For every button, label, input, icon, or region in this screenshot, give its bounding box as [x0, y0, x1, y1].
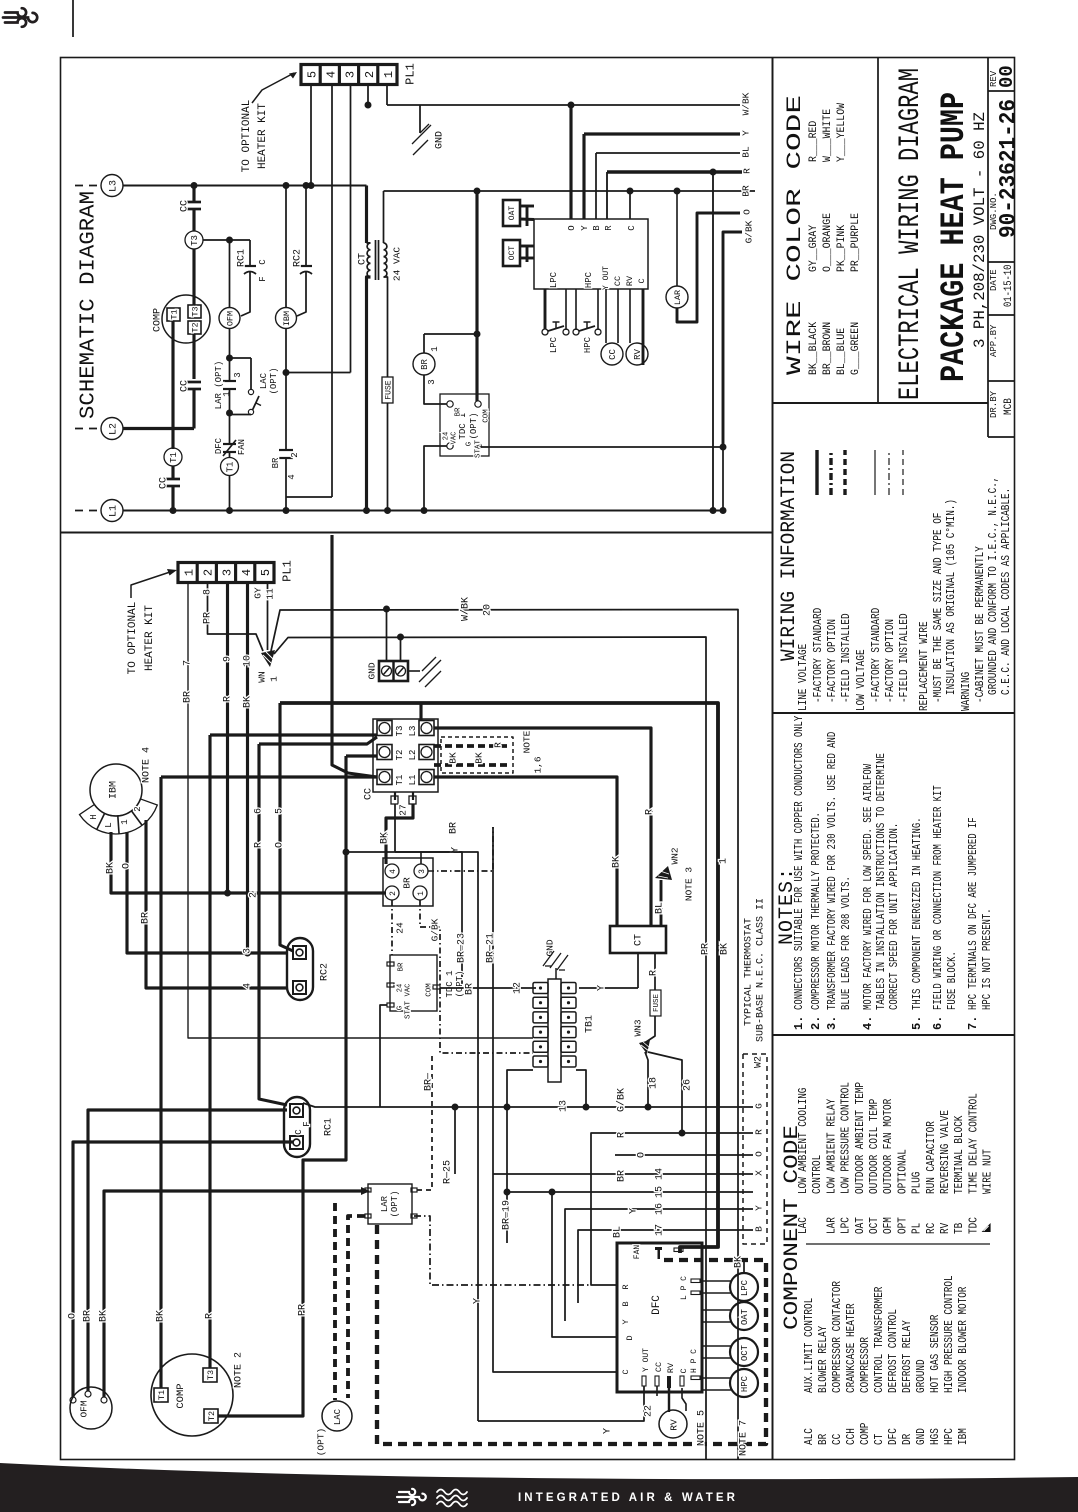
svg-text:WN3: WN3 [632, 1019, 643, 1036]
svg-text:R: R [205, 1313, 216, 1319]
svg-text:LAR: LAR [380, 1195, 390, 1212]
svg-text:DEFROST RELAY: DEFROST RELAY [901, 1320, 914, 1393]
dashed box low voltage field [377, 1225, 766, 1444]
svg-text:CONTROL: CONTROL [811, 1155, 824, 1194]
svg-text:MOTOR FACTORY WIRED FOR LOW SP: MOTOR FACTORY WIRED FOR LOW SPEED. SEE A… [862, 764, 875, 1010]
svg-text:NOTE: NOTE [521, 730, 532, 753]
svg-text:Y: Y [629, 1208, 640, 1214]
dash-dot R-25 [414, 1216, 591, 1285]
ground GND (schematic) [419, 105, 421, 133]
wire TDC G STAT [481, 445, 725, 447]
wire COMP T1 down [171, 321, 174, 449]
svg-text:PR__PURPLE: PR__PURPLE [850, 213, 862, 272]
svg-text:(OPT): (OPT) [315, 1428, 326, 1457]
defrost control DFC (schematic) [534, 219, 648, 289]
svg-text:BL: BL [613, 1226, 624, 1238]
svg-text:G/BK: G/BK [743, 220, 754, 243]
wire DFC C pin to 24VAC [629, 191, 631, 219]
svg-text:REPLACEMENT WIRE: REPLACEMENT WIRE [917, 621, 931, 711]
relay coil LAR (schematic) [674, 188, 681, 195]
wire thermostat X (14) [493, 1173, 753, 1175]
node T1 (OFM) [221, 458, 239, 476]
svg-text:-FIELD INSTALLED: -FIELD INSTALLED [897, 613, 911, 703]
contact DFC FAN [229, 413, 231, 444]
svg-text:BR: BR [398, 962, 406, 972]
svg-text:HGS: HGS [929, 1428, 942, 1445]
svg-text:HIGH PRESSURE CONTROL: HIGH PRESSURE CONTROL [943, 1275, 956, 1393]
svg-text:T1: T1 [157, 1390, 167, 1400]
svg-text:COM: COM [483, 409, 491, 423]
wire R-9 [226, 583, 229, 893]
svg-text:LOW PRESSURE CONTROL: LOW PRESSURE CONTROL [840, 1082, 853, 1194]
svg-text:O: O [567, 225, 577, 230]
svg-text:RC1: RC1 [237, 249, 248, 267]
wire x333 to T1 [332, 535, 377, 777]
svg-text:T1: T1 [226, 462, 236, 473]
svg-text:BR__BROWN: BR__BROWN [822, 322, 834, 375]
blower motor IBM (main) [90, 764, 142, 816]
svg-text:22: 22 [644, 1405, 655, 1417]
svg-text:TDC 1: TDC 1 [445, 970, 455, 997]
wire O-5 [280, 703, 293, 951]
svg-text:BR: BR [817, 1434, 830, 1445]
svg-text:OAT: OAT [740, 1308, 750, 1325]
wire O-5 to L3 [419, 703, 422, 721]
svg-text:H: H [89, 814, 99, 819]
svg-text:PR: PR [203, 612, 214, 624]
svg-text:11: 11 [264, 588, 275, 600]
svg-text:BR: BR [455, 407, 463, 417]
run capacitor RC2 (schematic) [303, 182, 310, 189]
svg-text:RC2: RC2 [293, 249, 304, 267]
svg-text:90-23621-26: 90-23621-26 [996, 99, 1022, 238]
svg-text:6: 6 [254, 808, 265, 814]
svg-text:DR: DR [901, 1434, 914, 1445]
svg-text:L P C: L P C [680, 1276, 689, 1300]
wire COMP T2 (PR) [218, 756, 346, 1416]
svg-text:RUN CAPACITOR: RUN CAPACITOR [925, 1121, 938, 1194]
connector plug OAT (schematic) [503, 200, 520, 226]
svg-text:BL: BL [655, 902, 666, 914]
node L3 [75, 185, 98, 187]
svg-text:OUTDOOR COIL TEMP: OUTDOOR COIL TEMP [868, 1099, 881, 1194]
svg-text:VAC: VAC [451, 432, 459, 445]
svg-text:G/BK: G/BK [616, 1088, 628, 1112]
svg-text:GND: GND [544, 939, 555, 956]
svg-text:(OPT): (OPT) [269, 367, 279, 394]
svg-text:CC: CC [180, 200, 191, 212]
svg-text:TABLES IN INSTALLATION INSTRUC: TABLES IN INSTALLATION INSTRUCTIONS TO D… [875, 753, 888, 1010]
svg-text:BR: BR [449, 822, 460, 834]
svg-text:W___WHITE: W___WHITE [822, 109, 834, 162]
svg-text:BR—21: BR—21 [486, 933, 497, 963]
wire COMP T1 (BK) [159, 777, 162, 1388]
defrost control DFC (main) [617, 1243, 702, 1392]
svg-text:FUSE: FUSE [384, 380, 393, 399]
svg-text:PL1: PL1 [403, 63, 417, 85]
svg-text:4: 4 [389, 869, 398, 874]
svg-text:-MUST BE THE SAME SIZE AND TYP: -MUST BE THE SAME SIZE AND TYPE OF [931, 513, 945, 703]
svg-text:TB1: TB1 [585, 1015, 596, 1033]
svg-text:24 VAC: 24 VAC [391, 247, 402, 282]
svg-text:1: 1 [222, 391, 232, 396]
wire LPC BK to dashed [743, 1260, 745, 1273]
svg-text:OFM: OFM [882, 1217, 895, 1234]
svg-text:CC: CC [608, 349, 618, 360]
svg-text:LOW AMBIENT COOLING: LOW AMBIENT COOLING [797, 1088, 810, 1194]
svg-text:F: F [302, 1121, 312, 1126]
wire OFM O [73, 1142, 293, 1397]
svg-text:4: 4 [240, 569, 254, 576]
svg-text:BK: BK [243, 696, 254, 708]
fan motor OFM (schematic) [219, 308, 240, 329]
svg-text:OFM: OFM [78, 1400, 89, 1417]
wire COMP T3 (R) [208, 735, 211, 1368]
svg-text:R: R [621, 1284, 631, 1289]
svg-text:GND: GND [435, 131, 446, 149]
wire W/BK-20 [271, 610, 738, 1460]
svg-text:WIRING INFORMATION: WIRING INFORMATION [778, 451, 801, 661]
svg-text:O: O [68, 1313, 79, 1319]
svg-text:W2: W2 [754, 1056, 765, 1068]
svg-text:5: 5 [305, 71, 319, 78]
run capacitor RC2 (main) [287, 938, 313, 1000]
svg-text:C: C [679, 1368, 689, 1373]
svg-text:18: 18 [649, 1077, 660, 1089]
svg-text:LAR: LAR [673, 290, 683, 305]
wire CC T2 stub [346, 754, 377, 757]
svg-text:LAC: LAC [333, 1408, 343, 1425]
svg-text:LAC: LAC [797, 1217, 810, 1234]
svg-text:-FACTORY STANDARD: -FACTORY STANDARD [811, 608, 825, 703]
svg-text:Y: Y [753, 1205, 764, 1211]
wire 24 / G-BK to TDC [391, 900, 393, 955]
svg-text:3: 3 [427, 379, 437, 384]
svg-text:B: B [753, 1226, 764, 1232]
svg-text:CT: CT [358, 253, 369, 265]
node T1 [164, 448, 182, 466]
svg-text:B: B [621, 1301, 631, 1306]
svg-text:HPC: HPC [583, 336, 593, 353]
svg-text:-FACTORY OPTION: -FACTORY OPTION [825, 619, 839, 703]
svg-text:01-15-10: 01-15-10 [1003, 265, 1015, 307]
wire OFM BR [88, 1110, 287, 1391]
dashed field power NOTE 1,6 [441, 737, 513, 773]
svg-text:COM: COM [426, 983, 434, 997]
svg-text:GROUNDED AND CONFORM TO I.E.C.: GROUNDED AND CONFORM TO I.E.C., N.E.C., [986, 477, 1000, 695]
fan motor OFM (main) [70, 1387, 112, 1429]
wire DFC R pin [606, 172, 608, 219]
svg-text:FAN: FAN [237, 439, 247, 455]
svg-text:T1: T1 [170, 309, 180, 319]
svg-text:C: C [637, 278, 647, 283]
svg-text:17: 17 [655, 1224, 666, 1236]
svg-text:DEFROST CONTROL: DEFROST CONTROL [887, 1309, 900, 1393]
wire PL1-5 to CC coil top / trunk [310, 85, 312, 186]
svg-text:T2: T2 [207, 1411, 217, 1421]
svg-text:BR: BR [83, 1310, 94, 1322]
svg-text:BK: BK [720, 943, 731, 955]
svg-text:BL__BLUE: BL__BLUE [836, 327, 848, 375]
svg-text:-FACTORY OPTION: -FACTORY OPTION [883, 619, 897, 703]
svg-text:2.: 2. [809, 1016, 823, 1030]
svg-text:L1: L1 [408, 775, 418, 786]
wire thermostat R [591, 1133, 753, 1285]
svg-text:COMPRESSOR: COMPRESSOR [859, 1337, 872, 1393]
relay BR block (main) [383, 858, 433, 906]
svg-text:2: 2 [133, 806, 143, 811]
wire L1 rail [123, 510, 723, 512]
svg-text:1: 1 [719, 858, 730, 864]
svg-text:CORRECT SPEED FOR UNIT APPLICA: CORRECT SPEED FOR UNIT APPLICATION. [888, 823, 901, 1010]
wire IBM L (BK) [111, 832, 386, 893]
svg-text:26: 26 [683, 1079, 694, 1091]
svg-text:4.: 4. [861, 1016, 875, 1030]
svg-text:LPC: LPC [840, 1217, 853, 1234]
wire CT secondary hot (24VAC) [384, 190, 756, 192]
svg-text:DFC: DFC [887, 1428, 900, 1445]
svg-text:TIME DELAY CONTROL: TIME DELAY CONTROL [967, 1093, 980, 1194]
blower motor IBM (schematic) [276, 308, 297, 329]
thermostat dashed box [743, 1054, 767, 1244]
svg-text:T1: T1 [395, 775, 405, 786]
svg-text:PR: PR [701, 943, 712, 955]
svg-text:G___GREEN: G___GREEN [850, 322, 862, 375]
svg-text:RV: RV [668, 1419, 679, 1431]
svg-text:Y OUT: Y OUT [602, 266, 611, 290]
svg-text:HPC: HPC [740, 1375, 750, 1392]
svg-text:COMPRESSOR MOTOR THERMALLY PRO: COMPRESSOR MOTOR THERMALLY PROTECTED. [810, 812, 823, 1010]
svg-text:2: 2 [202, 569, 216, 576]
switch LAC (OPT) [230, 357, 252, 359]
wire R-6 [259, 744, 287, 1105]
wire R COMP T3 to CC T3 [210, 733, 377, 736]
wire L2 rail [123, 427, 194, 430]
wire BR-23 [420, 852, 422, 864]
svg-text:G: G [397, 1005, 405, 1010]
svg-text:3.: 3. [825, 1016, 839, 1030]
svg-text:4: 4 [243, 983, 254, 989]
svg-text:TO OPTIONAL: TO OPTIONAL [241, 100, 253, 173]
svg-text:CT: CT [873, 1434, 886, 1445]
svg-text:B: B [592, 225, 602, 231]
svg-text:OCT: OCT [740, 1344, 750, 1361]
svg-text:R: R [223, 696, 234, 702]
svg-text:BK: BK [612, 856, 623, 868]
svg-text:CT: CT [634, 934, 645, 946]
svg-text:4: 4 [325, 71, 339, 78]
svg-text:8: 8 [203, 589, 214, 595]
svg-text:OPT: OPT [896, 1217, 909, 1234]
svg-text:IBM: IBM [109, 781, 120, 799]
wire OFM BK to LAR [104, 1191, 366, 1397]
svg-text:BK: BK [99, 1310, 110, 1322]
wire DFC O pin to W/BK [569, 105, 572, 219]
wire G/BK stub [477, 446, 723, 448]
svg-text:13: 13 [559, 1100, 570, 1112]
svg-text:TB: TB [953, 1223, 966, 1234]
transformer CT (main) [610, 926, 666, 953]
svg-text:1,6: 1,6 [532, 756, 543, 773]
svg-text:4: 4 [287, 474, 297, 479]
svg-text:Y: Y [580, 225, 590, 231]
wire L3 rail [123, 185, 367, 187]
wire WN1 to PR trunk [274, 637, 706, 1459]
svg-text:C.E.C. AND LOCAL CODES AS APPL: C.E.C. AND LOCAL CODES AS APPLICABLE. [999, 488, 1013, 695]
svg-text:5.: 5. [910, 1016, 924, 1030]
svg-text:L1: L1 [109, 505, 120, 517]
svg-text:WN2: WN2 [669, 847, 680, 864]
svg-text:-FIELD INSTALLED: -FIELD INSTALLED [839, 613, 853, 703]
pressure switch LPC (main) [730, 1273, 758, 1301]
svg-text:2: 2 [290, 452, 300, 457]
svg-text:TERMINAL BLOCK: TERMINAL BLOCK [953, 1116, 966, 1194]
svg-text:BK: BK [380, 832, 391, 844]
svg-text:DFC: DFC [214, 437, 224, 454]
svg-text:1: 1 [268, 676, 279, 682]
svg-text:W/BK: W/BK [740, 92, 751, 115]
svg-text:CC: CC [159, 477, 170, 489]
svg-text:L3: L3 [408, 726, 418, 737]
svg-text:ALC: ALC [803, 1428, 816, 1445]
svg-text:TO OPTIONAL: TO OPTIONAL [127, 602, 139, 675]
ground symbol (main) [408, 670, 420, 672]
wire TB1 to CT (Y) [579, 987, 638, 989]
svg-text:BR: BR [271, 457, 281, 468]
svg-text:COMP: COMP [175, 1383, 187, 1408]
svg-text:OAT: OAT [854, 1217, 867, 1234]
svg-text:GND: GND [366, 662, 377, 679]
wire PL1-2 [367, 85, 369, 105]
svg-text:Y___YELLOW: Y___YELLOW [836, 103, 848, 162]
svg-text:LAC: LAC [259, 372, 269, 389]
svg-text:O: O [122, 863, 133, 869]
svg-text:24: 24 [443, 432, 451, 440]
svg-text:GROUND: GROUND [915, 1359, 928, 1393]
svg-text:3: 3 [221, 569, 235, 576]
fuse FUSE (schematic) [384, 277, 388, 377]
svg-text:IBM: IBM [282, 311, 292, 326]
svg-text:TRANSFORMER FACTORY WIRED FOR: TRANSFORMER FACTORY WIRED FOR 230 VOLTS.… [826, 732, 839, 1010]
wire COMP T2 to CC contact [192, 334, 195, 379]
svg-text:BK: BK [447, 752, 458, 764]
svg-text:RC: RC [925, 1223, 938, 1234]
run capacitor RC1 (main) [284, 1097, 310, 1157]
svg-text:INSULATION AS ORIGINAL (105 C°: INSULATION AS ORIGINAL (105 C°MIN.) [944, 499, 958, 695]
svg-text:RV: RV [666, 1362, 676, 1373]
svg-text:1: 1 [382, 71, 396, 78]
svg-text:BR—: BR— [424, 1072, 435, 1091]
svg-text:1: 1 [182, 569, 196, 576]
svg-text:24: 24 [397, 984, 405, 992]
wire IBM 2 (BR) [146, 820, 286, 988]
svg-text:7.: 7. [966, 1016, 980, 1030]
wire LAR bottom to O stub [677, 213, 740, 322]
svg-text:BK: BK [473, 752, 484, 764]
terminal block TB1 [548, 979, 561, 1082]
contact CC (L2 phase) [187, 381, 201, 384]
svg-text:SUB-BASE N.E.C. CLASS II: SUB-BASE N.E.C. CLASS II [756, 898, 767, 1042]
wire DFC Y pin [582, 134, 585, 219]
svg-text:NOTE 5: NOTE 5 [697, 1410, 708, 1446]
svg-text:OUTDOOR FAN MOTOR: OUTDOOR FAN MOTOR [882, 1099, 895, 1194]
svg-text:H P C: H P C [690, 1349, 699, 1373]
svg-text:X: X [753, 1170, 764, 1176]
wire thermostat G (13/G-BK) [303, 1103, 753, 1107]
svg-text:R: R [617, 1132, 628, 1138]
svg-text:LOW AMBIENT RELAY: LOW AMBIENT RELAY [825, 1099, 838, 1194]
wire OFM down [229, 329, 231, 359]
svg-text:R: R [604, 225, 614, 231]
svg-text:G: G [753, 1103, 764, 1109]
svg-text:AUX.LIMIT CONTROL: AUX.LIMIT CONTROL [803, 1298, 816, 1393]
svg-text:3: 3 [233, 372, 243, 377]
svg-text:IBM: IBM [957, 1428, 970, 1445]
svg-text:12: 12 [513, 982, 524, 994]
svg-text:1: 1 [417, 891, 426, 896]
svg-text:R___RED: R___RED [808, 120, 820, 162]
svg-text:LPC: LPC [549, 271, 559, 288]
svg-text:WIRE NUT: WIRE NUT [982, 1149, 995, 1194]
svg-text:C: C [294, 1129, 304, 1135]
wire Y OUT 22 [478, 1386, 644, 1421]
svg-text:O: O [275, 842, 286, 848]
svg-text:5: 5 [275, 808, 286, 814]
svg-text:PACKAGE HEAT PUMP: PACKAGE HEAT PUMP [936, 92, 974, 382]
svg-text:Y OUT: Y OUT [642, 1348, 651, 1372]
wire CC L1 to CT (BK) [434, 777, 617, 926]
svg-text:LPC: LPC [740, 1279, 750, 1296]
svg-text:TDC: TDC [967, 1217, 980, 1234]
svg-text:3: 3 [344, 71, 358, 78]
svg-text:F: F [258, 276, 268, 281]
contact CC (L3 phase) [192, 186, 195, 203]
svg-text:L2: L2 [109, 423, 120, 435]
svg-text:DFC: DFC [651, 1295, 663, 1315]
svg-text:HPC: HPC [584, 271, 594, 288]
svg-text:COMPRESSOR CONTACTOR: COMPRESSOR CONTACTOR [831, 1281, 844, 1393]
wire thermostat Y (16) [565, 1209, 753, 1321]
svg-text:T3: T3 [190, 235, 200, 246]
wire CC L3 to CT (R) [434, 728, 651, 926]
svg-text:W/BK: W/BK [460, 597, 472, 621]
svg-text:OUTDOOR AMBIENT TEMP: OUTDOOR AMBIENT TEMP [854, 1082, 867, 1194]
svg-text:LAR (OPT): LAR (OPT) [214, 361, 224, 410]
reversing valve RV (main) [659, 1410, 687, 1438]
DFC bottom terminals [642, 1376, 646, 1386]
svg-text:FUSE: FUSE [653, 994, 661, 1013]
wire L3 to IBM [283, 182, 290, 189]
svg-text:6.: 6. [931, 1016, 945, 1030]
svg-text:10: 10 [243, 655, 254, 667]
svg-text:NOTE 7: NOTE 7 [739, 1420, 750, 1456]
svg-text:O: O [753, 1151, 764, 1157]
coil RV (schematic) [629, 289, 631, 343]
wire TDC 24VAC to L1 rail [424, 446, 447, 511]
svg-text:CC: CC [180, 380, 191, 392]
svg-text:C: C [258, 259, 268, 265]
svg-text:HPC: HPC [943, 1428, 956, 1445]
svg-text:BR: BR [141, 912, 152, 924]
svg-text:1: 1 [120, 819, 130, 824]
svg-text:1.: 1. [792, 1016, 806, 1030]
svg-text:PR: PR [298, 1304, 309, 1316]
relay contact BR (schematic circle) [424, 333, 477, 335]
svg-text:R: R [753, 1129, 764, 1135]
svg-text:BK: BK [156, 1310, 167, 1322]
svg-text:BR: BR [465, 983, 476, 995]
transformer CT (schematic) [367, 243, 370, 277]
